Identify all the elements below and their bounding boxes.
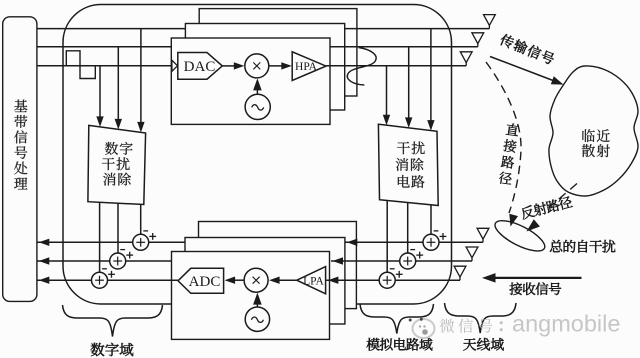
wire TX1 left segment	[37, 28, 186, 30]
DAC input open arrowhead	[172, 60, 178, 71]
summer A1	[423, 231, 446, 250]
TX chain block (front)	[171, 38, 330, 124]
summer A3	[379, 269, 402, 288]
analog domain brace	[360, 304, 434, 334]
wire RX2 left segment	[37, 257, 172, 264]
wire analog canceller to summer A3	[386, 201, 388, 273]
wire DAC to TX mixer	[222, 62, 244, 69]
summer D2	[110, 250, 133, 269]
TX chain block (middle)	[185, 24, 344, 111]
LPA amplifier	[297, 267, 326, 294]
wire TX osc to mixer	[253, 78, 262, 94]
wire TX mixer to HPA	[269, 62, 292, 69]
label 总的自干扰	[550, 240, 615, 253]
wire RX1 right segment	[345, 239, 483, 246]
wire analog canceller to summer A1	[430, 205, 432, 235]
wire tap TX1 to analog canceller	[427, 29, 434, 131]
summer D3	[92, 269, 115, 288]
nearby scatterer cloud 临近散射	[549, 66, 638, 196]
wire RX osc to mixer	[253, 293, 262, 308]
wire RX2 right segment	[331, 257, 472, 264]
svg-text:angmobile: angmobile	[512, 311, 620, 337]
received signal arrow	[482, 273, 582, 283]
ADC U2	[178, 268, 224, 293]
wire analog canceller to summer A2	[407, 203, 409, 254]
RX chain block (middle)	[185, 238, 345, 325]
label 模拟电路域	[367, 338, 433, 351]
label 直接路径	[498, 123, 519, 186]
TX chain block (back)	[199, 9, 357, 96]
analog interference canceller 干扰消除电路	[378, 124, 438, 205]
wire RX mixer to ADC	[225, 277, 244, 284]
TX antenna 1	[484, 15, 496, 29]
wire tap TX3 to analog canceller	[383, 66, 390, 125]
analog waveform symbol	[347, 48, 376, 86]
summer A2	[400, 250, 423, 269]
baseband processor block 基带信号处理	[3, 17, 37, 302]
TX local oscillator	[245, 94, 270, 119]
digital domain brace	[63, 305, 163, 337]
label 数字域	[91, 343, 134, 356]
total self-interference ellipse	[491, 215, 549, 257]
label 接收信号	[510, 282, 562, 295]
svg-text:ADC: ADC	[189, 274, 221, 290]
wire digital canceller to summer D1	[140, 204, 142, 234]
TX mixer	[245, 54, 269, 78]
label 反射路径	[520, 195, 573, 220]
wire digital canceller to summer D3	[99, 202, 101, 272]
wire digital canceller to summer D2	[117, 203, 119, 253]
digital interference canceller 数字干扰消除	[88, 125, 146, 204]
wire RX3 left segment	[37, 277, 178, 284]
svg-text:DAC: DAC	[184, 59, 216, 75]
wire tap TX3 to digital canceller	[96, 66, 103, 127]
wire tap TX2 to digital canceller	[115, 47, 122, 130]
DAC U1	[178, 53, 223, 80]
RX local oscillator	[245, 307, 269, 331]
system enclosure (rounded rect)	[63, 5, 452, 305]
TX antenna 2	[472, 33, 484, 47]
watermark wechat logo and id	[409, 311, 621, 339]
svg-text:HPA: HPA	[295, 61, 318, 73]
label 传输信号	[499, 33, 556, 66]
direct path dashed curve	[486, 62, 521, 227]
wire TX3 right segment (HPA output)	[326, 65, 466, 67]
RX antenna 1	[477, 228, 489, 242]
label 天线域	[463, 338, 503, 351]
wire TX2 right segment	[330, 46, 478, 48]
antenna domain brace	[445, 303, 517, 333]
RX chain block (front)	[172, 252, 330, 340]
RX chain block (back)	[199, 222, 357, 309]
RX mixer	[244, 268, 268, 292]
wire TX2 left segment	[37, 46, 171, 48]
svg-text:LPA: LPA	[303, 275, 324, 287]
RX antenna 3	[454, 266, 466, 280]
summer D1	[133, 231, 156, 250]
TX antenna 3	[460, 52, 472, 66]
wire TX1 right segment	[345, 28, 490, 30]
wire RX3 right segment	[326, 277, 460, 284]
reflected path dashes	[549, 184, 577, 208]
wire tap TX1 to digital canceller	[137, 29, 144, 133]
digital waveform symbol	[66, 51, 95, 79]
wire TX3 left segment	[37, 65, 172, 67]
reflected path arrowhead	[527, 219, 540, 231]
wire tap TX2 to analog canceller	[405, 47, 412, 128]
RX antenna 2	[466, 247, 478, 261]
transmitted signal arrow	[490, 57, 564, 85]
HPA amplifier	[292, 52, 326, 81]
wire RX1 left segment	[37, 239, 185, 246]
wire LPA to RX mixer	[269, 277, 297, 284]
